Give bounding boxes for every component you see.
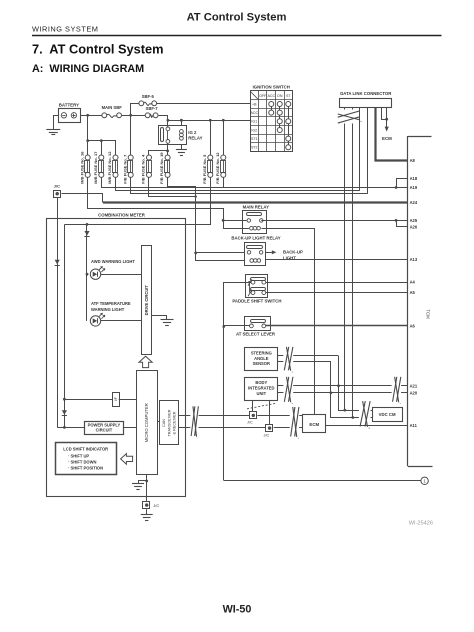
svg-text:AT Control System: AT Control System bbox=[187, 12, 287, 24]
svg-text:+B: +B bbox=[252, 102, 257, 106]
svg-text:M/B FUSE No. 12: M/B FUSE No. 12 bbox=[107, 151, 112, 184]
fuse F/B No.19 bbox=[165, 155, 170, 160]
svg-text:CIRCUIT: CIRCUIT bbox=[96, 428, 113, 433]
node AWD branch bbox=[86, 273, 89, 276]
svg-text:M/B FUSE No. 16: M/B FUSE No. 16 bbox=[79, 151, 84, 184]
svg-text:A19: A19 bbox=[410, 185, 418, 190]
svg-text:ON: ON bbox=[277, 94, 283, 98]
svg-text:IGNITION SWITCH: IGNITION SWITCH bbox=[253, 85, 290, 90]
svg-text:AWD WARNING LIGHT: AWD WARNING LIGHT bbox=[91, 259, 135, 264]
twisted pair SAS bbox=[283, 355, 293, 363]
wire IG2 relay output bbox=[167, 143, 169, 155]
wire J/C leg joins PSU feed bbox=[57, 427, 64, 429]
LCD shift indicator box bbox=[56, 443, 117, 475]
wire to F/B fuse No.7 bbox=[130, 115, 132, 155]
svg-text:ANGLE: ANGLE bbox=[254, 356, 269, 361]
junction connector J/C bottom bbox=[143, 502, 150, 509]
svg-text:TRANSCEIVER: TRANSCEIVER bbox=[167, 409, 171, 436]
switch PADDLE SHIFT SWITCH bbox=[246, 275, 268, 298]
fuse M/B No.12 bbox=[113, 155, 118, 160]
svg-text:ECM: ECM bbox=[382, 136, 392, 141]
node CAN H junction bbox=[337, 384, 340, 387]
drive circuit box bbox=[142, 246, 152, 355]
svg-text:DATA LINK CONNECTOR: DATA LINK CONNECTOR bbox=[340, 91, 392, 96]
svg-text:DRIVE CIRCUIT: DRIVE CIRCUIT bbox=[144, 285, 149, 316]
twisted pair BIU bbox=[283, 385, 293, 394]
wire ATF LED to drive circuit bbox=[101, 320, 142, 322]
svg-text:BATTERY: BATTERY bbox=[59, 103, 79, 108]
svg-text:MICRO COMPUTER: MICRO COMPUTER bbox=[144, 403, 149, 442]
wire battery down to M/B fuses bbox=[87, 115, 89, 155]
diode meter rail bbox=[62, 410, 67, 415]
svg-text:BACK-UP: BACK-UP bbox=[283, 249, 303, 254]
coil main relay bbox=[250, 226, 254, 230]
node CAN L junction bbox=[330, 391, 333, 394]
diode meter bbox=[84, 231, 89, 236]
wire CAN H to ECM bbox=[257, 415, 303, 417]
wire M/B17 to TCM A19 bbox=[102, 178, 408, 188]
wire SBF-5 to ignition switch +B bbox=[157, 103, 250, 105]
svg-text:RELAY: RELAY bbox=[188, 136, 202, 141]
node PSU feed bbox=[63, 426, 66, 429]
fuse F/B No.4 bbox=[147, 155, 152, 160]
wire main relay coil to ECM bbox=[262, 229, 315, 415]
svg-text:ACC: ACC bbox=[267, 94, 275, 98]
power supply circuit box bbox=[64, 427, 84, 429]
ECM box bbox=[303, 415, 326, 433]
arrow LCD left bbox=[121, 454, 133, 465]
fuse F/B No.12 bbox=[221, 155, 226, 160]
wire SAS L down to bus bbox=[330, 361, 332, 393]
body integrated unit box bbox=[245, 378, 278, 401]
coil back-up relay bbox=[250, 259, 254, 263]
fuse link SBF-7 bbox=[145, 113, 150, 118]
svg-text:· SHIFT DOWN: · SHIFT DOWN bbox=[68, 460, 96, 465]
wire CAN H branch to VDC bbox=[339, 386, 373, 411]
ignition switch contacts bbox=[269, 102, 274, 107]
svg-text:A24: A24 bbox=[410, 200, 418, 205]
wire ECM to TCM A11 bbox=[326, 425, 408, 427]
header rule bbox=[32, 35, 442, 37]
ground microcomputer bbox=[132, 483, 144, 485]
svg-text:SENSOR: SENSOR bbox=[253, 361, 270, 366]
wire IG1 line to ignition switch bbox=[168, 120, 250, 122]
wire BIU to J/C CAN L bbox=[269, 401, 271, 424]
svg-text:A20: A20 bbox=[410, 390, 418, 395]
junction connector J/C CAN-H bbox=[250, 412, 257, 419]
svg-text:F/B FUSE No. 19: F/B FUSE No. 19 bbox=[159, 152, 164, 184]
wire microcomputer ground bbox=[146, 475, 148, 501]
svg-text:A26: A26 bbox=[410, 225, 418, 230]
node battery feed bbox=[86, 114, 89, 117]
wire SBF-7 to IG2 relay contact bbox=[159, 116, 168, 127]
wire CAN L to ECM bbox=[274, 427, 303, 429]
svg-text:ATF TEMPERATURE: ATF TEMPERATURE bbox=[91, 301, 131, 306]
wire meter internal rail bbox=[64, 224, 66, 427]
coil IG2 relay bbox=[180, 130, 184, 134]
svg-text:WI-25426: WI-25426 bbox=[409, 521, 433, 527]
wire paddle common bbox=[249, 282, 251, 292]
svg-text:· SHIFT UP: · SHIFT UP bbox=[68, 454, 89, 459]
ground drive circuit bbox=[161, 319, 174, 321]
wire F/B4 bbox=[149, 178, 196, 197]
svg-text:7. AT Control System: 7. AT Control System bbox=[32, 42, 164, 57]
wire SAS CAN L bbox=[278, 361, 331, 363]
svg-text:COMBINATION METER: COMBINATION METER bbox=[98, 212, 146, 217]
wire M/B fuse top bus bbox=[88, 141, 116, 156]
VDC CM box bbox=[373, 408, 403, 422]
wire J/C to ground bbox=[146, 509, 148, 514]
wire F/B19 to back-up light relay bbox=[168, 178, 245, 261]
fuse M/B No.16 bbox=[85, 155, 90, 160]
wire SAS CAN H bbox=[278, 355, 339, 357]
shield dashed link bbox=[247, 403, 277, 409]
svg-text:F/B FUSE No. 5: F/B FUSE No. 5 bbox=[202, 154, 207, 184]
wire F/B12 to A19 bus bbox=[223, 177, 225, 187]
node A18 branch bbox=[395, 186, 398, 189]
arrow to ECM bbox=[385, 127, 389, 132]
wire M/B16 to main relay bbox=[88, 178, 224, 229]
wire to off-page connector 1 bbox=[224, 480, 421, 482]
ground bottom J/C bbox=[141, 514, 153, 516]
wire M/B12 to DLC bbox=[116, 178, 360, 191]
svg-text:CAN: CAN bbox=[162, 419, 166, 427]
wire BIU CAN L to TCM A20 bbox=[278, 392, 408, 394]
svg-text:A6: A6 bbox=[410, 324, 416, 329]
wire LED chain bbox=[86, 224, 88, 274]
svg-text:ACC: ACC bbox=[250, 111, 258, 115]
svg-text:A8: A8 bbox=[410, 158, 416, 163]
ground battery bbox=[46, 129, 60, 131]
svg-text:AT SELECT LEVER: AT SELECT LEVER bbox=[236, 332, 276, 337]
svg-text:SBF-5: SBF-5 bbox=[142, 94, 155, 99]
TCM connector bbox=[407, 136, 409, 466]
switch arrows bbox=[248, 281, 251, 286]
wire battery to ground bbox=[54, 116, 59, 130]
wire F/B7 to DLC bbox=[131, 178, 368, 194]
wire CAN L from meter bbox=[178, 427, 265, 429]
wire BIU CAN H to TCM A21 bbox=[278, 385, 408, 387]
arrow drive to microcomputer bbox=[139, 356, 152, 367]
svg-text:M/B FUSE No. 17: M/B FUSE No. 17 bbox=[93, 151, 98, 184]
switch AT SELECT LEVER bbox=[245, 317, 271, 331]
svg-text:ST: ST bbox=[286, 94, 291, 98]
svg-text:J/C: J/C bbox=[247, 420, 253, 424]
wire IG2 relay coil to ground bbox=[181, 145, 183, 150]
svg-text:A25: A25 bbox=[410, 218, 418, 223]
svg-text:J/C: J/C bbox=[153, 503, 159, 508]
wire main relay to TCM A25 bbox=[261, 220, 408, 222]
microcomputer box bbox=[137, 371, 158, 475]
fuse F/B No.5 bbox=[208, 155, 213, 160]
svg-text:A4: A4 bbox=[410, 280, 416, 285]
wire CAN H from meter bbox=[178, 415, 249, 417]
svg-text:F/B FUSE No. 12: F/B FUSE No. 12 bbox=[215, 152, 220, 184]
junction connector J/C CAN-L bbox=[266, 425, 273, 432]
svg-text:UNIT: UNIT bbox=[257, 391, 267, 396]
ground IG2 relay bbox=[176, 149, 187, 151]
svg-text:WARNING LIGHT: WARNING LIGHT bbox=[91, 307, 125, 312]
fuse link MAIN SBF bbox=[102, 113, 107, 118]
wire SAS H down to bus bbox=[338, 356, 340, 386]
wire DLC CAN-H bbox=[344, 108, 346, 411]
wire battery positive feed bbox=[80, 115, 102, 117]
svg-text:VDC CM: VDC CM bbox=[379, 412, 396, 417]
CAN transceiver box bbox=[157, 421, 159, 423]
svg-text:LCD SHIFT INDICATOR: LCD SHIFT INDICATOR bbox=[63, 447, 108, 452]
wire J/C to TCM A24 (thick) bbox=[62, 194, 103, 203]
svg-text:ECM: ECM bbox=[309, 422, 319, 427]
node SBF-7 / IG1 crossing bbox=[167, 119, 170, 122]
twisted pair meter CAN bbox=[190, 414, 198, 428]
wire AT select lever to TCM A6 bbox=[266, 325, 408, 327]
wire A18 stub bbox=[397, 179, 408, 188]
svg-text:IG2: IG2 bbox=[251, 128, 257, 132]
fuse F/B No.7 bbox=[128, 155, 133, 160]
svg-text:A: WIRING DIAGRAM: A: WIRING DIAGRAM bbox=[32, 63, 144, 75]
svg-text:ST1: ST1 bbox=[251, 137, 258, 141]
svg-text:BODY: BODY bbox=[255, 380, 267, 385]
svg-text:IG1: IG1 bbox=[251, 120, 257, 124]
svg-text:F/B FUSE No. 4: F/B FUSE No. 4 bbox=[141, 154, 146, 184]
svg-text:· SHIFT POSITION: · SHIFT POSITION bbox=[68, 466, 103, 471]
twisted pair DLC bbox=[344, 110, 354, 124]
twisted pair ECM CAN bbox=[290, 415, 300, 429]
svg-text:MAIN RELAY: MAIN RELAY bbox=[243, 204, 269, 209]
wire tap to F/B fuse No.5 bbox=[210, 120, 212, 155]
wire paddle up to TCM A4 bbox=[266, 282, 408, 284]
svg-text:& RECEIVER: & RECEIVER bbox=[172, 411, 176, 434]
off-page connector 1 bbox=[421, 477, 428, 484]
node SBF junction bbox=[129, 114, 132, 117]
svg-text:J/C: J/C bbox=[54, 184, 60, 189]
ignition switch contact bars bbox=[271, 104, 273, 113]
svg-text:A11: A11 bbox=[410, 423, 418, 428]
fuse M/B No.17 bbox=[99, 155, 104, 160]
arrow to back-up light bbox=[265, 252, 271, 254]
relay IG2 bbox=[159, 126, 187, 145]
wire J/C leg down bbox=[57, 198, 59, 428]
steering angle sensor box bbox=[245, 348, 278, 371]
svg-text:STEERING: STEERING bbox=[251, 351, 272, 356]
wire F/B5 to combination meter bbox=[65, 178, 211, 225]
wire I/F branch bbox=[63, 398, 66, 401]
svg-text:A13: A13 bbox=[410, 257, 418, 262]
wire paddle down to TCM A5 bbox=[266, 292, 408, 294]
wire to F/B fuse No.4 bbox=[149, 151, 168, 156]
wire tap to F/B fuse No.12 bbox=[223, 120, 225, 155]
wire DLC pin to bus bbox=[367, 108, 369, 194]
wire BIU to J/C CAN H bbox=[252, 401, 254, 412]
svg-text:MAIN SBF: MAIN SBF bbox=[102, 105, 123, 110]
svg-text:INTEGRATED: INTEGRATED bbox=[248, 386, 274, 391]
wire up to SBF-5 bbox=[131, 104, 139, 116]
diode J/C leg bbox=[55, 260, 60, 265]
fuse link SBF-5 bbox=[139, 101, 144, 106]
twisted pair VDC bbox=[359, 409, 371, 419]
wire AWD LED to drive circuit bbox=[101, 274, 142, 276]
wire drive circuit ground bbox=[152, 316, 167, 320]
wire CAN L branch to VDC bbox=[331, 393, 373, 418]
svg-text:A5: A5 bbox=[410, 290, 416, 295]
svg-text:TCM: TCM bbox=[426, 309, 431, 319]
wire back-up relay coil to TCM A13 bbox=[265, 259, 408, 261]
svg-text:PADDLE SHIFT SWITCH: PADDLE SHIFT SWITCH bbox=[232, 298, 281, 303]
svg-text:OFF: OFF bbox=[259, 94, 267, 98]
svg-text:ST2: ST2 bbox=[251, 146, 258, 150]
wire AT select lever to page link bbox=[224, 325, 250, 327]
wire paddle to page link bbox=[224, 283, 252, 481]
svg-text:A18: A18 bbox=[410, 176, 418, 181]
svg-text:IG 2: IG 2 bbox=[188, 130, 197, 135]
svg-text:F/B FUSE No. 7: F/B FUSE No. 7 bbox=[122, 154, 127, 184]
svg-text:A21: A21 bbox=[410, 383, 418, 388]
wire DLC CAN-L bbox=[352, 108, 354, 418]
svg-text:J/C: J/C bbox=[264, 433, 270, 437]
wire DLC pin to bus bbox=[359, 108, 361, 191]
interface box I/F bbox=[113, 393, 120, 407]
svg-text:BACK-UP LIGHT RELAY: BACK-UP LIGHT RELAY bbox=[231, 236, 280, 241]
twisted pair TCM CAN bbox=[392, 385, 402, 394]
svg-text:WI-50: WI-50 bbox=[223, 603, 252, 615]
svg-text:SBF-7: SBF-7 bbox=[146, 106, 159, 111]
svg-text:WIRING SYSTEM: WIRING SYSTEM bbox=[32, 25, 98, 34]
wire DLC K-line pair bbox=[382, 108, 387, 120]
wire A26 stub bbox=[397, 221, 408, 227]
wire MAIN SBF to SBF junction bbox=[122, 115, 146, 117]
wire DLC to TCM A8 (thick) bbox=[376, 108, 408, 161]
